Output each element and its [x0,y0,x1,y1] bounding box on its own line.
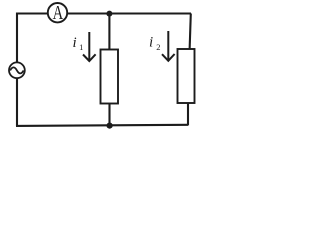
svg-text:i: i [149,34,153,50]
svg-text:A: A [53,3,64,24]
svg-text:2: 2 [156,42,160,52]
svg-text:1: 1 [79,42,83,52]
svg-text:i: i [73,35,77,51]
